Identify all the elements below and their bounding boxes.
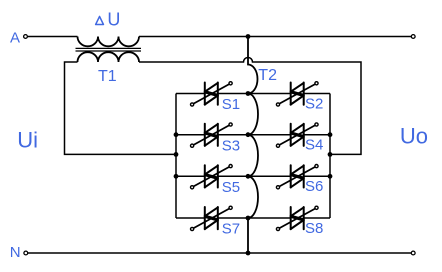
svg-text:S4: S4 <box>305 137 323 154</box>
wire row S7-S8 <box>176 217 330 219</box>
autotransformer T2 tapped winding <box>248 37 258 254</box>
junction T2 tap row 2 <box>246 132 251 137</box>
svg-text:T2: T2 <box>258 67 277 84</box>
svg-text:S6: S6 <box>305 178 323 195</box>
thyristor switch S2 <box>276 82 318 106</box>
junction T2 tap row 4 <box>246 216 251 221</box>
junction top node T2 <box>246 34 251 39</box>
wire left column bus <box>175 94 177 219</box>
svg-text:U: U <box>107 9 120 29</box>
svg-text:S7: S7 <box>222 221 240 238</box>
wire row S3-S4 <box>176 134 330 136</box>
junction T2 tap row 1 <box>246 91 251 96</box>
svg-text:S2: S2 <box>305 95 323 112</box>
wire T1 secondary right with hop over T2 <box>139 58 361 155</box>
terminal N <box>24 251 28 255</box>
svg-text:S3: S3 <box>222 137 240 154</box>
terminal top right <box>411 35 415 39</box>
svg-text:S1: S1 <box>222 96 240 113</box>
transformer T1 primary winding <box>78 37 140 47</box>
junction right bus row S4 <box>328 132 333 137</box>
junction right bus row S6 <box>328 174 333 179</box>
svg-text:Uo: Uo <box>400 123 428 148</box>
thyristor switch S4 <box>276 123 318 147</box>
svg-text:S8: S8 <box>305 220 323 237</box>
thyristor switch S1 <box>191 82 233 106</box>
thyristor switch S3 <box>191 123 233 147</box>
thyristor switch S5 <box>191 165 233 189</box>
junction T2 tap row 3 <box>246 174 251 179</box>
junction bottom node T2 <box>246 251 251 256</box>
wire row S5-S6 <box>176 175 330 177</box>
transformer T1 secondary winding <box>78 52 140 62</box>
transformer T1 core <box>76 48 142 51</box>
thyristor switch S7 <box>191 206 233 230</box>
wire T1 secondary left to left bus <box>65 62 177 154</box>
svg-text:S5: S5 <box>222 179 240 196</box>
thyristor switch S8 <box>276 206 318 230</box>
thyristor switch S6 <box>276 165 318 189</box>
junction right bus feed <box>328 152 333 157</box>
junction left bus row S5 <box>174 174 179 179</box>
junction left bus feed <box>174 152 179 157</box>
wire top left from terminal A to T1 <box>28 36 78 38</box>
svg-text:N: N <box>10 244 21 261</box>
wire row S1-S2 <box>176 93 330 95</box>
terminal bottom right <box>411 251 415 255</box>
label delta-U <box>96 16 104 24</box>
wire right column bus <box>329 94 331 219</box>
svg-text:A: A <box>10 29 20 46</box>
wire bottom from terminal N to right terminal <box>28 252 411 254</box>
svg-text:Ui: Ui <box>17 127 38 152</box>
terminal A <box>24 35 28 39</box>
svg-text:T1: T1 <box>98 68 117 85</box>
junction left bus row S3 <box>174 132 179 137</box>
wire top from T1 to right terminal <box>139 36 411 38</box>
